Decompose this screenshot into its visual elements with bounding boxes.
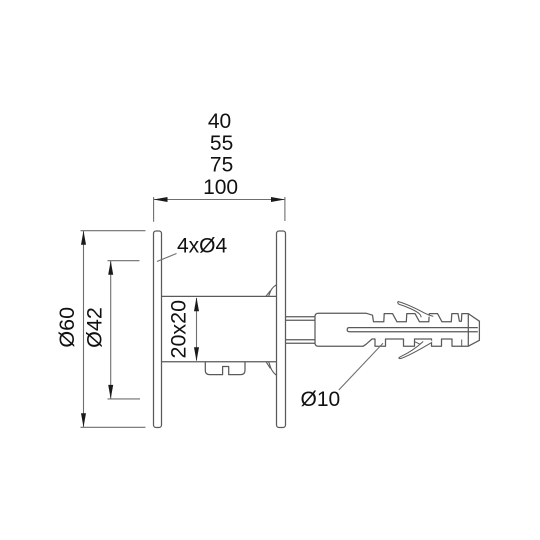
rod outer top line [286, 316, 316, 318]
svg-text:100: 100 [203, 176, 238, 199]
leader line 4xØ4 [157, 254, 177, 262]
bottom wing root detail [415, 342, 420, 345]
arrowhead bottom of 20x20 [194, 347, 199, 361]
svg-text:75: 75 [210, 154, 233, 177]
rod outer bottom line [286, 342, 316, 344]
wall plug body outline [315, 313, 479, 346]
screw slot in plug [347, 328, 478, 332]
svg-text:Ø42: Ø42 [83, 307, 107, 348]
extension line bottom of Ø42 [108, 398, 141, 400]
rod inner bottom line [286, 339, 316, 341]
rod inner top line [286, 319, 316, 321]
arrowhead left of 100 dim [154, 197, 168, 202]
svg-text:4xØ4: 4xØ4 [177, 235, 228, 258]
bottom expansion wing fill [399, 341, 432, 359]
clip profile under tube [205, 362, 245, 375]
weld bead bottom (diagonal) [266, 362, 270, 369]
svg-text:55: 55 [210, 132, 233, 155]
arrowhead right of 100 dim [271, 197, 285, 202]
weld bead bottom (arc) [269, 362, 277, 375]
dimension 20x20 line [196, 298, 198, 361]
square tube top edge [162, 295, 277, 297]
top expansion wing fill [398, 302, 434, 318]
extension line right of 100 dim [284, 197, 286, 221]
svg-text:20x20: 20x20 [166, 300, 190, 359]
wall plug collar edge [467, 314, 469, 347]
extension line bottom of Ø60 [81, 426, 146, 428]
extension line top of Ø60 [81, 230, 146, 232]
arrowhead bottom of Ø60 [81, 413, 86, 427]
square tube bottom edge [162, 361, 277, 363]
extension line left of 100 dim [153, 197, 155, 222]
dimension Ø60 vertical line [83, 231, 85, 428]
dimension Ø42 vertical line [110, 261, 112, 399]
top expansion wing edges [398, 302, 434, 318]
left flange plate [154, 231, 162, 428]
arrowhead bottom of Ø42 [108, 385, 113, 399]
extension line top of Ø42 [108, 260, 140, 262]
svg-text:Ø60: Ø60 [55, 307, 79, 348]
arrowhead top of 20x20 [194, 297, 199, 311]
arrowhead top of Ø60 [81, 231, 86, 245]
dimension line 100 [154, 199, 286, 201]
weld bead top (diagonal) [266, 291, 271, 297]
wall plug bottom slit [461, 340, 463, 347]
svg-text:40: 40 [208, 110, 231, 133]
right flange plate [277, 231, 286, 428]
leader line Ø10 [339, 343, 383, 390]
arrowhead top of Ø42 [108, 261, 113, 275]
weld bead top (arc) [269, 285, 277, 297]
svg-text:Ø10: Ø10 [301, 388, 341, 411]
bottom expansion wing edges [399, 342, 432, 359]
